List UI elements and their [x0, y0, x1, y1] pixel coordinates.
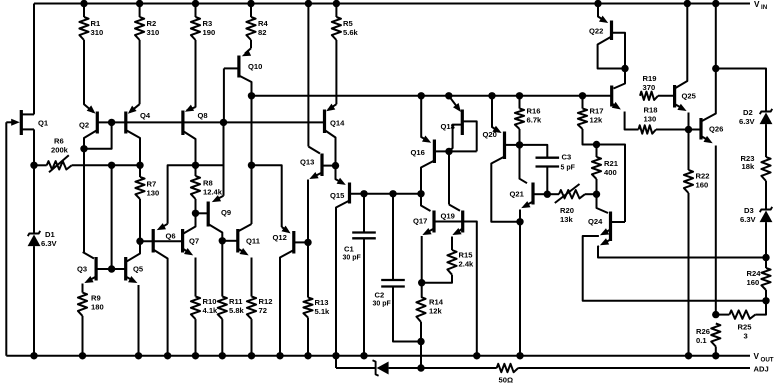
- svg-text:5.6k: 5.6k: [343, 28, 359, 37]
- wire Q12 emitter feed: [252, 165, 282, 227]
- node bias line start (Q10 collector): [248, 92, 255, 99]
- svg-text:200k: 200k: [51, 146, 69, 155]
- svg-text:Q19: Q19: [441, 212, 455, 221]
- node R9 bottom on bus: [79, 352, 86, 359]
- node bias/Q16 emitter: [418, 92, 425, 99]
- svg-text:Q26: Q26: [709, 125, 723, 134]
- wire base line to Q5: [112, 268, 126, 270]
- node Q21 emitter on bus: [516, 352, 523, 359]
- wire R21 node to Q24 collector: [597, 145, 626, 223]
- wire Q17/Q19 base line down to bus: [463, 222, 477, 356]
- svg-text:Q14: Q14: [330, 119, 345, 128]
- wire ADJ line left of diode: [336, 367, 376, 369]
- svg-text:Q16: Q16: [411, 148, 425, 157]
- wire ADJ drop from bus: [335, 356, 337, 368]
- svg-text:12k: 12k: [590, 116, 603, 125]
- node Q15 collector on bus: [332, 352, 339, 359]
- transistor Q17: [413, 194, 463, 297]
- node rail-R5: [333, 0, 340, 7]
- node R14/C2 junction: [417, 338, 424, 345]
- wire branch to D2 column: [716, 69, 766, 112]
- svg-text:6.3V: 6.3V: [740, 215, 757, 224]
- svg-text:R20: R20: [560, 206, 574, 215]
- node rail-Q13 column: [305, 0, 312, 7]
- resistor R8 12.4k: [191, 165, 223, 213]
- node Q13 base / Q14 collector: [332, 162, 339, 169]
- transistor Q23 (PNP, unlabelled): [612, 86, 639, 130]
- resistor R9 180: [78, 293, 104, 356]
- diode zener on ADJ line: [373, 360, 422, 375]
- svg-text:R19: R19: [643, 74, 657, 83]
- svg-text:R1: R1: [91, 19, 101, 28]
- svg-text:Q2: Q2: [79, 121, 89, 130]
- resistor R1 310: [79, 4, 103, 105]
- wire R6 line to R7 node: [112, 164, 140, 166]
- transistor Q21 (PNP): [510, 145, 548, 356]
- node Q9 collector / Q11 base: [219, 237, 226, 244]
- transistor Q12 (PNP): [273, 226, 309, 356]
- wire node to C3: [520, 145, 548, 158]
- svg-text:Q8: Q8: [198, 111, 208, 120]
- resistor R16 6.7k: [515, 96, 542, 145]
- node bias/Q20 emitter: [488, 92, 495, 99]
- node R12 bottom on bus: [248, 352, 255, 359]
- resistor R26 0.1: [696, 324, 720, 356]
- node R10 bottom on bus: [192, 352, 199, 359]
- transistor Q15 (PNP): [330, 166, 421, 356]
- resistor 50ohm: [421, 364, 750, 385]
- node R26 bottom on bus: [712, 352, 719, 359]
- transistor Q1 (JFET current source): [6, 110, 49, 135]
- wire Q18 tie to Q19 collector: [448, 151, 450, 204]
- svg-text:Q5: Q5: [133, 265, 144, 274]
- wire Q3 emitter to R9: [82, 284, 84, 293]
- transistor Q13: [300, 147, 336, 180]
- node C1 bottom on bus: [360, 352, 367, 359]
- svg-text:R11: R11: [229, 297, 243, 306]
- transistor Q18 (PNP): [441, 96, 477, 152]
- transistor Q14 (PNP): [325, 104, 346, 166]
- node summing line / C2: [389, 190, 396, 197]
- resistor R17 12k: [578, 96, 604, 145]
- svg-text:310: 310: [147, 28, 160, 37]
- svg-text:400: 400: [604, 168, 617, 177]
- resistor R13 5.1k: [303, 298, 330, 356]
- svg-text:R14: R14: [429, 298, 444, 307]
- wire V_OUT bus: [6, 355, 750, 357]
- svg-text:13k: 13k: [560, 215, 573, 224]
- transistor Q20 (PNP): [483, 96, 521, 222]
- wire rail to Q26 collector: [715, 4, 717, 69]
- svg-text:D3: D3: [744, 206, 754, 215]
- svg-text:R10: R10: [203, 297, 217, 306]
- svg-text:R8: R8: [203, 179, 213, 188]
- node R22 bottom on bus: [685, 352, 692, 359]
- transistor Q2 (PNP): [79, 104, 97, 149]
- resistor R18 130: [639, 106, 689, 134]
- svg-text:V: V: [754, 0, 760, 9]
- transistor Q24 (dual emitter): [583, 194, 766, 301]
- svg-text:D1: D1: [45, 230, 55, 239]
- svg-text:Q4: Q4: [140, 111, 151, 120]
- node base-line/Q9 column: [220, 119, 227, 126]
- svg-text:130: 130: [644, 115, 657, 124]
- node summing line / Q16-Q17: [417, 190, 424, 197]
- svg-text:Q11: Q11: [246, 237, 261, 246]
- node R16/Q20 base/C3/Q21 collector: [516, 141, 523, 148]
- svg-text:Q6: Q6: [166, 232, 176, 241]
- svg-text:R5: R5: [343, 19, 353, 28]
- wire Q10/Q11 column: [251, 96, 253, 166]
- svg-text:R21: R21: [604, 159, 619, 168]
- transistor Q16 (PNP): [411, 96, 477, 194]
- resistor R21 400: [592, 145, 619, 195]
- svg-text:R13: R13: [315, 298, 329, 307]
- node rail-R2: [136, 0, 143, 7]
- svg-text:Q7: Q7: [189, 237, 199, 246]
- node Q1/R6: [30, 162, 37, 169]
- resistor R3 190: [191, 4, 215, 108]
- svg-text:Q25: Q25: [682, 92, 697, 101]
- transistor Q19: [441, 205, 463, 251]
- wire staple bar: [168, 165, 224, 224]
- resistor R12 72: [247, 297, 273, 356]
- wire Q9 emitter column: [223, 122, 225, 195]
- node R11 bottom on bus: [219, 352, 226, 359]
- svg-text:R6: R6: [54, 137, 64, 146]
- svg-text:180: 180: [91, 303, 104, 312]
- svg-text:Q17: Q17: [413, 217, 427, 226]
- terminal V_IN: [754, 0, 768, 11]
- transistor Q8 (PNP): [183, 105, 208, 166]
- svg-text:370: 370: [643, 83, 656, 92]
- resistor R4 82: [246, 4, 268, 49]
- svg-text:R17: R17: [590, 107, 604, 116]
- node Q17/19 base column on bus: [473, 352, 480, 359]
- svg-text:82: 82: [258, 28, 266, 37]
- node bias/R16: [516, 92, 523, 99]
- svg-text:5.1k: 5.1k: [315, 307, 331, 316]
- svg-text:ADJ: ADJ: [754, 365, 769, 374]
- resistor R24 160: [747, 258, 771, 301]
- node Q8 collector / R8 top (staple): [192, 162, 199, 169]
- svg-text:OUT: OUT: [761, 356, 774, 363]
- svg-text:V: V: [754, 352, 760, 361]
- svg-text:C3: C3: [562, 153, 572, 162]
- svg-text:12.4k: 12.4k: [203, 188, 223, 197]
- node bias/R17: [579, 92, 586, 99]
- node rail-R4: [247, 0, 254, 7]
- svg-text:R24: R24: [747, 269, 762, 278]
- svg-text:4.1k: 4.1k: [203, 306, 219, 315]
- node Q20 collector / Q21 emitter: [516, 218, 523, 225]
- node R6/R7 top: [136, 162, 143, 169]
- node rail-Q22: [594, 0, 601, 7]
- transistor Q4 (PNP): [126, 104, 151, 165]
- node ADJ/R14 column: [417, 364, 424, 371]
- node Q11 collector / Q12 emitter feed: [248, 162, 255, 169]
- svg-text:6.7k: 6.7k: [527, 116, 543, 125]
- node Q12 collector on bus: [276, 352, 283, 359]
- transistor Q9: [196, 195, 232, 241]
- node R24 bottom / R25: [762, 297, 769, 304]
- transistor Q22 (PNP): [589, 4, 625, 69]
- svg-text:D2: D2: [743, 108, 753, 117]
- capacitor C3 5pF: [536, 153, 576, 195]
- terminal V_OUT: [754, 352, 774, 363]
- transistor Q10: [224, 48, 262, 96]
- transistor Q6 (PNP): [153, 223, 175, 356]
- terminal ADJ: [754, 365, 769, 374]
- svg-text:30 pF: 30 pF: [373, 301, 392, 308]
- resistor R23 18k: [741, 154, 771, 210]
- svg-text:R15: R15: [459, 251, 474, 260]
- transistor Q26: [689, 69, 724, 315]
- node bias/Q18 emitter: [445, 92, 452, 99]
- resistor R25 3: [716, 301, 766, 341]
- svg-text:0.1: 0.1: [696, 336, 707, 345]
- node Q26 collector / D2 branch: [712, 65, 719, 72]
- wire Q1 source to R6 node: [33, 129, 35, 165]
- resistor R20 13k (adjustable): [547, 184, 596, 224]
- svg-text:Q12: Q12: [273, 233, 287, 242]
- svg-text:R25: R25: [738, 323, 753, 332]
- wire bias line: [252, 95, 612, 97]
- node Q5 emitter on bus: [135, 352, 142, 359]
- svg-text:C2: C2: [375, 291, 385, 300]
- wire Q2/Q4/Q8/Q14 common base line: [97, 121, 324, 123]
- node Q2 collector tie: [80, 145, 87, 152]
- node R6/Q3-base column: [108, 162, 115, 169]
- transistor Q5: [126, 241, 144, 356]
- wire Q1 gate down to bottom bus: [5, 122, 7, 355]
- wire tie down to Q23 collector: [614, 69, 626, 89]
- svg-text:R18: R18: [644, 106, 658, 115]
- node Q6 collector on bus: [164, 352, 171, 359]
- svg-text:C1: C1: [344, 245, 354, 254]
- transistor Q25: [675, 4, 697, 130]
- svg-text:190: 190: [203, 28, 216, 37]
- node R13 bottom on bus: [304, 352, 311, 359]
- capacitor C1 30pF: [343, 194, 376, 356]
- svg-text:3: 3: [744, 332, 748, 341]
- resistor R7 130: [135, 165, 159, 241]
- zener diode D3 6.3V: [740, 206, 772, 257]
- node summing line / C1: [360, 190, 367, 197]
- node rail-R1: [80, 0, 87, 7]
- svg-text:R4: R4: [258, 19, 268, 28]
- node C3 / Q21 base / R20: [544, 191, 551, 198]
- svg-text:130: 130: [147, 189, 160, 198]
- node Q3/Q5 base line: [108, 265, 115, 272]
- svg-text:Q13: Q13: [300, 158, 314, 167]
- svg-text:50Ω: 50Ω: [499, 376, 514, 385]
- resistor R10 4.1k: [191, 297, 218, 356]
- wire Q10 base down to common base line: [223, 68, 225, 122]
- wire R14 column through bus to ADJ: [420, 342, 422, 369]
- svg-text:R16: R16: [527, 107, 541, 116]
- wire Q3/Q5 base feed: [111, 165, 113, 269]
- svg-text:Q9: Q9: [221, 208, 231, 217]
- wire Q13 emitter down to R13: [307, 180, 309, 298]
- svg-text:IN: IN: [761, 4, 768, 11]
- node rail-Q26 collector: [712, 0, 719, 7]
- node Q12 base tie: [304, 239, 311, 246]
- node rail-Q25 collector: [684, 0, 691, 7]
- node rail-R3: [192, 0, 199, 7]
- svg-text:Q3: Q3: [77, 265, 87, 274]
- svg-text:5 pF: 5 pF: [561, 165, 576, 172]
- node base-line tie: [108, 119, 115, 126]
- transistor Q11: [222, 224, 260, 297]
- node R20 / R21 / Q24 base: [593, 191, 600, 198]
- svg-text:310: 310: [91, 28, 104, 37]
- wire Q2 collector down to Q3: [83, 149, 85, 252]
- zener diode D2 6.3V: [739, 108, 772, 157]
- wire V_IN top rail: [34, 3, 750, 5]
- svg-text:R7: R7: [147, 180, 157, 189]
- node Q25 emitter / R18 / Q26 base: [685, 126, 692, 133]
- svg-text:160: 160: [696, 181, 709, 190]
- node R25/R26/Q26 emitter: [712, 311, 719, 318]
- svg-text:Q21: Q21: [510, 190, 525, 199]
- resistor R5 5.6k: [332, 4, 359, 105]
- svg-text:Q10: Q10: [248, 62, 262, 71]
- svg-text:Q1: Q1: [38, 119, 49, 128]
- svg-text:160: 160: [747, 278, 760, 287]
- svg-text:R22: R22: [696, 172, 710, 181]
- resistor R15 2.4k: [422, 250, 474, 283]
- resistor R6 200k (adjustable): [34, 137, 112, 173]
- resistor R22 160: [684, 130, 710, 356]
- wire rail to Q13 collector: [307, 4, 309, 147]
- transistor Q3: [77, 252, 112, 283]
- node rail/Q1 corner: [33, 4, 35, 115]
- svg-text:R12: R12: [259, 297, 273, 306]
- svg-text:5.8k: 5.8k: [229, 306, 245, 315]
- node Q22 base-collector tie: [621, 65, 628, 72]
- zener diode D1 6.3V: [28, 165, 58, 355]
- node D1 bottom on bus: [30, 352, 37, 359]
- resistor R19 370: [640, 74, 675, 100]
- node D3 / R24 / Q24-emitter2 line: [762, 254, 769, 261]
- transistor Q7: [183, 213, 200, 296]
- svg-text:R26: R26: [696, 327, 710, 336]
- wire Q11 collector segment: [251, 165, 253, 224]
- resistor R2 310: [135, 4, 159, 105]
- svg-text:R3: R3: [203, 19, 213, 28]
- node R15 joins Q17 emitter: [418, 279, 425, 286]
- svg-text:Q20: Q20: [483, 130, 497, 139]
- svg-text:72: 72: [259, 306, 267, 315]
- svg-text:R2: R2: [147, 19, 157, 28]
- svg-text:18k: 18k: [742, 162, 755, 171]
- svg-text:Q24: Q24: [588, 217, 603, 226]
- capacitor C2 30pF: [373, 194, 422, 342]
- svg-text:Q15: Q15: [330, 191, 345, 200]
- wire Q2 base-collector tie: [84, 122, 112, 148]
- svg-text:6.3V: 6.3V: [41, 239, 58, 248]
- node R17/R21/Q24-collector link: [593, 141, 600, 148]
- resistor R11 5.8k: [218, 241, 245, 356]
- node R7/Q5/Q6 tie: [136, 238, 143, 245]
- resistor R14 12k: [416, 297, 443, 342]
- svg-text:Q22: Q22: [589, 27, 603, 36]
- node Q16/Q18 base tie: [445, 148, 452, 155]
- svg-text:12k: 12k: [429, 307, 442, 316]
- node Q7 collector / R8 / Q9 base: [192, 210, 199, 217]
- wire Q6/Q7 base line: [140, 240, 183, 242]
- svg-text:6.3V: 6.3V: [739, 117, 756, 126]
- svg-text:2.4k: 2.4k: [459, 260, 475, 269]
- svg-text:30 pF: 30 pF: [343, 255, 362, 262]
- svg-text:R9: R9: [91, 294, 101, 303]
